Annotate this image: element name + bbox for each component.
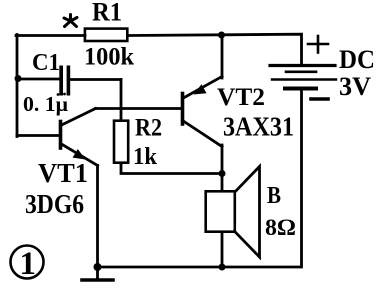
svg-text:VT1: VT1: [38, 158, 88, 188]
svg-text:1: 1: [20, 246, 37, 282]
speaker B: [206, 167, 260, 258]
wire VT2 collector down to speaker node: [221, 145, 224, 191]
wire R2 bottom to VT2 collector node: [121, 164, 222, 174]
resistor R1: [85, 29, 127, 41]
wire battery negative to bottom-right corner and bottom rail: [98, 89, 302, 268]
junction C1 / left rail: [15, 75, 22, 82]
junction VT2 collector / R2 / speaker: [219, 170, 226, 177]
svg-text:3AX31: 3AX31: [223, 112, 294, 142]
battery BT 3V: [270, 66, 336, 89]
svg-text:3DG6: 3DG6: [25, 189, 84, 219]
label + (battery positive): [308, 36, 328, 53]
transistor VT1 (NPN 3DG6): [61, 109, 98, 166]
svg-text:100k: 100k: [84, 44, 134, 71]
wire mid rail (VT1 collector / R2 top / VT2 base): [96, 107, 183, 110]
junction bottom rail / speaker: [219, 264, 226, 271]
svg-text:DC: DC: [339, 45, 375, 74]
transistor VT2 (PNP 3AX31): [183, 77, 223, 147]
wire VT1 base: [17, 134, 61, 137]
svg-text:0. 1μ: 0. 1μ: [23, 92, 68, 116]
svg-text:R1: R1: [92, 0, 122, 27]
wire left rail: [16, 35, 19, 137]
capacitor C1: [18, 66, 121, 96]
junction top rail / VT2 emitter: [218, 32, 225, 39]
wire VT2 emitter to top rail: [221, 35, 224, 78]
wire C1 down to mid rail and R2: [120, 80, 123, 121]
junction bottom rail / VT1 emitter / ground: [94, 263, 102, 271]
wire VT1 emitter vertical: [96, 166, 99, 267]
figure number 1 (circled): [11, 246, 44, 283]
resistor R2: [114, 121, 128, 163]
wire R1 to battery positive (top rail right): [129, 34, 302, 64]
label - (battery negative): [311, 97, 328, 101]
svg-text:B: B: [267, 183, 281, 209]
wire speaker to bottom rail: [221, 233, 224, 267]
svg-text:3V: 3V: [339, 72, 371, 101]
svg-text:VT2: VT2: [217, 84, 265, 111]
label * (asterisk mark): [64, 15, 77, 27]
wire top-left segment (VT1 base node to R1): [16, 34, 85, 37]
svg-text:C1: C1: [32, 50, 60, 76]
svg-text:1k: 1k: [133, 144, 158, 170]
ground: [82, 267, 113, 280]
svg-text:8Ω: 8Ω: [265, 215, 296, 240]
svg-text:R2: R2: [135, 115, 162, 142]
